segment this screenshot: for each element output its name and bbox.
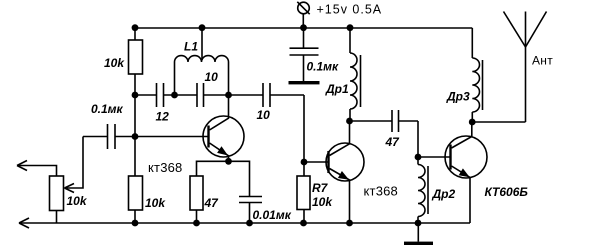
svg-text:Ант: Ант	[532, 54, 553, 68]
transistor Q1 kt368	[203, 95, 244, 161]
ground bar under C1	[289, 81, 320, 84]
svg-text:12: 12	[156, 110, 170, 124]
svg-text:Др3: Др3	[446, 89, 470, 103]
svg-text:10k: 10k	[145, 196, 166, 210]
svg-text:0.1мк: 0.1мк	[307, 60, 340, 74]
wire Q2 base	[304, 161, 328, 163]
ground	[404, 223, 433, 245]
svg-text:Др1: Др1	[325, 82, 349, 96]
svg-text:+15v 0.5A: +15v 0.5A	[317, 3, 383, 17]
svg-text:10: 10	[205, 70, 219, 84]
wire R7 column	[303, 95, 305, 223]
svg-text:10k: 10k	[312, 195, 333, 209]
resistor R4 47	[190, 176, 203, 210]
antenna	[504, 12, 547, 123]
svg-text:10k: 10k	[67, 194, 88, 208]
transistor Q3 KT606B	[445, 122, 487, 223]
svg-text:L1: L1	[184, 40, 198, 54]
transistor Q2 kt368	[326, 121, 364, 223]
svg-text:КТ606Б: КТ606Б	[485, 185, 529, 199]
wire bottom rail	[19, 222, 470, 224]
capacitor C3 12	[157, 83, 164, 107]
power terminal X1	[297, 2, 309, 28]
node Q3 base	[415, 154, 422, 161]
svg-text:10: 10	[257, 108, 271, 122]
wire emitter left to R4	[197, 161, 229, 176]
wire left column	[134, 28, 136, 223]
resistor R7 10k	[297, 176, 310, 210]
svg-text:Др2: Др2	[432, 187, 456, 201]
inductor L1	[175, 28, 229, 95]
svg-text:0.01мк: 0.01мк	[253, 208, 292, 222]
node mid-left junctions	[132, 24, 139, 31]
node Q2 base	[301, 159, 308, 166]
svg-text:10k: 10k	[104, 56, 125, 70]
svg-text:0.1мк: 0.1мк	[91, 102, 124, 116]
svg-text:47: 47	[204, 196, 220, 210]
resistor R3 10k	[129, 176, 143, 210]
capacitor C5 0.01mk	[239, 197, 262, 203]
svg-text:47: 47	[385, 135, 401, 149]
node Q1 emitter	[225, 158, 232, 165]
capacitor C2 0.1mk input	[108, 124, 116, 149]
arrow bottom input	[19, 218, 29, 228]
capacitor C6 10 coupling	[263, 83, 270, 107]
svg-text:кт368: кт368	[364, 184, 398, 199]
capacitor C4 10 tank	[197, 83, 204, 107]
node bottom junctions	[132, 220, 139, 227]
wire Q1 base	[135, 136, 208, 138]
inductor Dr1	[350, 28, 361, 121]
svg-text:кт368: кт368	[148, 160, 182, 175]
node Q2 collector	[346, 118, 353, 125]
node Q3 collector	[469, 119, 476, 126]
potentiometer R2 10k	[17, 137, 83, 224]
inductor Dr2	[418, 157, 428, 223]
svg-text:R7: R7	[312, 181, 329, 195]
wire to antenna	[472, 121, 525, 123]
wire emitter right to C5	[229, 161, 250, 196]
wire mid line	[135, 94, 304, 96]
wire top rail	[135, 27, 472, 29]
wire Q3 base	[418, 156, 450, 158]
wire to Q3 base	[417, 121, 419, 157]
resistor R1 10k	[129, 40, 143, 74]
capacitor C7 47	[350, 120, 419, 122]
inductor Dr3	[472, 28, 482, 122]
capacitor C1 0.1mk decoupling	[290, 28, 319, 81]
